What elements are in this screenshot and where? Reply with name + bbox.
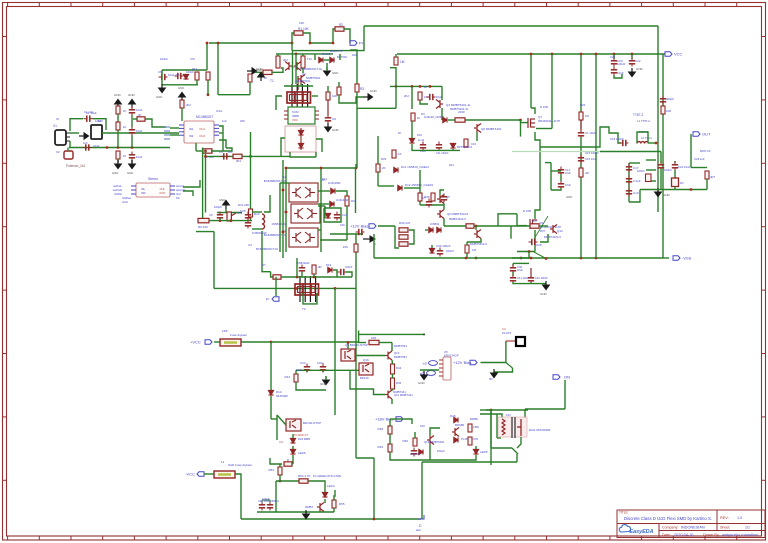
capacitor C20b 100nF bbox=[658, 162, 664, 171]
transformer T2 bbox=[295, 276, 319, 302]
svg-text:-VCC: -VCC bbox=[185, 472, 195, 477]
diode D4 bbox=[298, 143, 303, 148]
resistor R46 10R bbox=[369, 340, 379, 344]
capacitor C19 snubber bbox=[646, 174, 652, 182]
wire bbox=[429, 444, 431, 460]
capacitor C27b bbox=[426, 199, 432, 208]
diode D10 1N4148W bbox=[330, 201, 334, 206]
wire aux rail bbox=[359, 333, 425, 335]
svg-text:R 10R: R 10R bbox=[540, 105, 548, 109]
wire bbox=[209, 220, 252, 222]
svg-text:R39 447: R39 447 bbox=[399, 221, 411, 225]
wire bbox=[674, 161, 676, 163]
transistor Q13 bbox=[550, 225, 557, 234]
wire gate bbox=[517, 225, 527, 227]
wire bbox=[161, 70, 163, 85]
resistor R49 bbox=[388, 444, 392, 452]
wire bbox=[420, 455, 476, 460]
junction bbox=[411, 85, 414, 88]
net flag +12V Bias source bbox=[453, 360, 477, 365]
svg-text:C17: C17 bbox=[633, 166, 639, 170]
wire top rail bbox=[364, 25, 658, 27]
junction bbox=[285, 211, 288, 214]
wire bbox=[195, 143, 197, 151]
wire comparator rail bbox=[390, 85, 442, 87]
svg-text:F1B: F1B bbox=[222, 329, 228, 333]
svg-text:IRFI4019H-117P: IRFI4019H-117P bbox=[538, 119, 560, 123]
capacitor C15 10uF bbox=[578, 155, 584, 164]
wire bbox=[280, 182, 289, 184]
junction bbox=[690, 188, 693, 191]
svg-text:D18 MBR: D18 MBR bbox=[298, 437, 310, 441]
net flag +18V Bias bbox=[375, 417, 403, 422]
wire bbox=[279, 464, 281, 467]
wire bbox=[490, 410, 492, 448]
wire bbox=[411, 86, 413, 109]
wire bbox=[145, 119, 166, 127]
junction bbox=[465, 257, 468, 260]
wire bbox=[480, 409, 491, 411]
wire bbox=[391, 343, 393, 352]
wire stub dangling bbox=[510, 226, 512, 239]
junction bbox=[528, 250, 531, 253]
wire bbox=[286, 167, 356, 169]
net flag ON bbox=[553, 375, 570, 380]
svg-text:R33: R33 bbox=[381, 157, 387, 161]
junction bbox=[530, 257, 533, 260]
resistor R21 1K bbox=[411, 113, 415, 121]
wire bbox=[648, 142, 656, 144]
wire bbox=[330, 233, 363, 235]
wire bbox=[356, 92, 358, 168]
wire bbox=[390, 452, 420, 460]
wire bbox=[517, 251, 535, 253]
ground jack sleeve bbox=[79, 133, 89, 139]
svg-text:GNDin: GNDin bbox=[114, 192, 122, 196]
wire bbox=[466, 242, 468, 245]
resistor R30 4R7 bbox=[705, 171, 709, 179]
wire bbox=[534, 230, 536, 252]
wire vertical to feedback bbox=[205, 151, 207, 213]
svg-text:bR: bR bbox=[489, 377, 493, 381]
svg-text:C19: C19 bbox=[633, 191, 639, 195]
ground bbox=[247, 68, 257, 74]
capacitor C24 bbox=[334, 212, 340, 221]
junction bbox=[204, 155, 207, 158]
wire bbox=[300, 83, 302, 85]
svg-text:10uF: 10uF bbox=[296, 368, 302, 372]
IC4 pins bbox=[439, 360, 443, 376]
resistor R42 10K bbox=[354, 244, 358, 252]
wire bbox=[357, 107, 396, 109]
wire feedback resistor drop bbox=[250, 132, 252, 209]
resistor R5b bbox=[116, 122, 120, 130]
svg-text:OUR: OUR bbox=[159, 191, 165, 195]
wire bbox=[170, 127, 179, 129]
wire stub bbox=[646, 180, 656, 182]
junction bbox=[282, 189, 285, 192]
wire bbox=[333, 29, 335, 43]
wire bbox=[691, 167, 707, 169]
svg-text:DRV134OP: DRV134OP bbox=[444, 354, 459, 358]
wire bbox=[706, 179, 708, 190]
resistor R37 bbox=[530, 224, 539, 228]
resistor R52 bbox=[468, 437, 472, 445]
svg-text:2K: 2K bbox=[138, 113, 142, 117]
wire vertical bbox=[490, 410, 492, 465]
wire bbox=[346, 272, 352, 277]
svg-text:R3: R3 bbox=[360, 87, 364, 91]
svg-text:2020-04-10: 2020-04-10 bbox=[674, 533, 693, 537]
junction bbox=[282, 231, 285, 234]
wire diff rail bbox=[276, 53, 333, 55]
junction bbox=[291, 42, 294, 45]
wire bbox=[475, 446, 477, 449]
svg-text:GND: GND bbox=[332, 128, 340, 132]
capacitor C42 100nF bbox=[528, 275, 534, 284]
resistor R18 bbox=[337, 87, 341, 95]
svg-text:REV:: REV: bbox=[720, 516, 729, 520]
transistor Q14 bbox=[474, 230, 481, 239]
resistor R4 1M bbox=[394, 57, 398, 65]
junction bbox=[419, 85, 422, 88]
resistor R27 1R bbox=[579, 168, 583, 177]
wire bbox=[498, 214, 517, 226]
svg-text:BZT52C5V1: BZT52C5V1 bbox=[457, 145, 473, 149]
wire bbox=[302, 54, 304, 56]
wire bbox=[512, 272, 514, 276]
wire bbox=[524, 409, 526, 418]
wire bbox=[318, 190, 330, 192]
transistor Q6 MMBT4401 bbox=[474, 124, 481, 133]
svg-text:OU1: OU1 bbox=[199, 127, 205, 131]
ground up bbox=[179, 92, 186, 101]
capacitor C9 10pF bbox=[427, 94, 436, 100]
diode D22 bbox=[325, 213, 330, 218]
junction bbox=[429, 85, 432, 88]
ground output bbox=[655, 188, 662, 197]
relay K2 core bbox=[512, 417, 515, 438]
svg-text:1/1: 1/1 bbox=[745, 526, 750, 530]
svg-text:1K: 1K bbox=[398, 152, 402, 156]
wire bbox=[218, 94, 250, 96]
wire right vertical 2 bbox=[662, 54, 664, 258]
wire bbox=[217, 212, 242, 214]
wire bbox=[325, 376, 327, 380]
svg-text:10K: 10K bbox=[98, 119, 103, 123]
svg-text:R48: R48 bbox=[377, 427, 383, 431]
svg-text:FC-GREEN-STD-GTWE: FC-GREEN-STD-GTWE bbox=[313, 474, 342, 478]
resistor R12 bbox=[195, 72, 199, 80]
svg-text:C25: C25 bbox=[240, 209, 246, 213]
wire bbox=[419, 170, 421, 205]
wire bbox=[356, 457, 374, 459]
wire long mid vertical bbox=[355, 285, 357, 458]
wire right stack vertical bbox=[320, 168, 322, 252]
wire bbox=[326, 63, 328, 71]
junction bbox=[475, 257, 478, 260]
wire to P- flag bbox=[275, 277, 277, 296]
diode D15 bbox=[419, 449, 423, 454]
capacitor C2 1uF bbox=[83, 144, 92, 150]
svg-text:10uF: 10uF bbox=[565, 183, 571, 187]
capacitor C27 bbox=[441, 194, 447, 203]
wire bbox=[391, 399, 393, 404]
junction bbox=[475, 225, 478, 228]
svg-text:altru: altru bbox=[416, 528, 422, 532]
junction bbox=[282, 189, 285, 192]
wire long vertical bbox=[270, 342, 272, 390]
connector X1 pins bbox=[66, 133, 70, 141]
wire bbox=[292, 26, 364, 51]
wire long drop 2 bbox=[595, 55, 597, 258]
wire bbox=[347, 343, 349, 350]
svg-text:100pF: 100pF bbox=[214, 205, 222, 209]
svg-text:SAD Fuse diykasi: SAD Fuse diykasi bbox=[228, 463, 252, 467]
svg-text:C42 100nF: C42 100nF bbox=[535, 276, 548, 280]
wire bbox=[320, 239, 347, 241]
wire bbox=[441, 108, 443, 120]
wire stub bbox=[277, 415, 286, 425]
wire bbox=[249, 82, 251, 95]
resistor R9 bbox=[198, 218, 209, 222]
IC3 pins bbox=[284, 111, 319, 119]
wire left stack vertical bbox=[282, 160, 284, 258]
svg-text:Drawn By:: Drawn By: bbox=[703, 533, 720, 537]
wire bbox=[481, 362, 506, 364]
svg-text:D11: D11 bbox=[449, 163, 454, 167]
IC2 right pins bbox=[170, 186, 175, 194]
svg-text:LED6: LED6 bbox=[298, 451, 306, 455]
svg-text:1.0: 1.0 bbox=[737, 516, 742, 520]
wire bbox=[438, 149, 440, 151]
net flag +VCC bbox=[190, 340, 212, 345]
svg-text:Q5: Q5 bbox=[446, 195, 450, 199]
svg-text:L1 TT87-2: L1 TT87-2 bbox=[637, 119, 650, 123]
wire vertical from P+ rail bbox=[217, 43, 219, 95]
capacitor C8 bbox=[325, 115, 331, 124]
wire bbox=[70, 132, 79, 134]
wire bbox=[378, 225, 395, 227]
wire switch node vertical bbox=[535, 147, 540, 219]
diode D8 LL4148 bbox=[409, 138, 414, 143]
wire bbox=[355, 164, 357, 168]
wire bbox=[613, 54, 615, 59]
wire bus into opamp bbox=[164, 127, 170, 139]
ground bbox=[325, 123, 332, 132]
wire bbox=[441, 86, 443, 100]
svg-text:C18 100nF: C18 100nF bbox=[610, 137, 624, 141]
wire bbox=[250, 217, 252, 221]
svg-text:GND: GND bbox=[663, 193, 671, 197]
wire bbox=[425, 229, 428, 231]
junction bbox=[580, 257, 583, 260]
svg-text:C5: C5 bbox=[209, 213, 213, 217]
junction bbox=[551, 53, 554, 56]
svg-text:4R7: 4R7 bbox=[710, 175, 716, 179]
wire bbox=[313, 274, 315, 277]
wire bbox=[131, 160, 133, 163]
resistor R38 1M bbox=[465, 245, 469, 253]
svg-text:1N4148_CMKIT: 1N4148_CMKIT bbox=[424, 115, 444, 119]
ground bias bbox=[159, 84, 166, 93]
wire bbox=[496, 414, 498, 438]
wire drop from VCC bbox=[530, 55, 532, 108]
wire bbox=[395, 54, 397, 57]
connector X1 audio jack bbox=[55, 130, 66, 145]
wire bbox=[378, 185, 394, 187]
wire bbox=[373, 234, 375, 258]
junction bbox=[249, 155, 252, 158]
svg-text:P4 ATX: P4 ATX bbox=[502, 331, 511, 335]
wire bbox=[412, 144, 460, 150]
svg-text:12V: 12V bbox=[506, 413, 511, 417]
relay K2 contact bbox=[517, 419, 521, 436]
wire bbox=[390, 67, 396, 69]
svg-text:RV1 20K: RV1 20K bbox=[238, 203, 249, 207]
svg-text:400pF: 400pF bbox=[666, 97, 674, 101]
svg-text:FC-RED-ST: FC-RED-ST bbox=[294, 433, 308, 437]
resistor R19 bbox=[418, 92, 422, 100]
wire bbox=[476, 132, 478, 141]
svg-text:GND: GND bbox=[219, 198, 225, 202]
resistor R22b bbox=[464, 139, 468, 147]
wire bbox=[303, 33, 333, 43]
svg-text:100nF: 100nF bbox=[345, 265, 353, 269]
svg-text:MMBT4401/4: MMBT4401/4 bbox=[449, 217, 466, 221]
wire bbox=[443, 204, 445, 210]
resistor R57 bbox=[312, 265, 316, 274]
wire inductor loop bbox=[637, 132, 648, 143]
wire bbox=[344, 29, 350, 43]
svg-text:BD680: BD680 bbox=[470, 417, 478, 421]
svg-text:T12: T12 bbox=[307, 57, 312, 61]
svg-text:1N5819HW: 1N5819HW bbox=[296, 261, 310, 265]
junction bbox=[332, 42, 335, 45]
svg-text:1N4148W: 1N4148W bbox=[336, 198, 349, 202]
capacitor C17 2.2uF bbox=[626, 164, 632, 173]
svg-text:GND: GND bbox=[370, 89, 378, 93]
wire bbox=[390, 418, 405, 420]
svg-text:GND: GND bbox=[127, 171, 133, 175]
svg-text:R45: R45 bbox=[396, 381, 402, 385]
svg-text:100nF: 100nF bbox=[617, 62, 626, 66]
svg-text:FC-: FC- bbox=[279, 440, 284, 444]
capacitor C28 bbox=[529, 239, 538, 245]
wire upper T2 rail bbox=[281, 276, 352, 278]
wire bbox=[204, 473, 214, 475]
svg-text:BC846BDW1T1G: BC846BDW1T1G bbox=[264, 233, 286, 237]
wire bbox=[422, 461, 517, 463]
svg-text:10K: 10K bbox=[343, 245, 348, 249]
ground on rail b bbox=[303, 510, 310, 519]
wire stub bbox=[646, 159, 656, 161]
wire bbox=[690, 134, 692, 136]
ground bbox=[115, 160, 122, 169]
wire output return bbox=[600, 151, 661, 153]
wire bbox=[358, 342, 366, 344]
wire bbox=[525, 408, 565, 410]
svg-text:100uF: 100uF bbox=[437, 449, 445, 453]
capacitor C20 100nF bbox=[611, 58, 617, 67]
svg-text:10K: 10K bbox=[340, 223, 345, 227]
wire bbox=[580, 55, 582, 112]
wire highlighted net bbox=[512, 151, 600, 153]
diode Z1 BZT52C bbox=[450, 143, 455, 148]
wire component loop bbox=[324, 208, 341, 222]
svg-text:22uF: 22uF bbox=[93, 144, 100, 148]
wire bbox=[334, 490, 335, 500]
wire bbox=[324, 499, 326, 503]
wire bbox=[505, 341, 507, 363]
svg-text:MUR460: MUR460 bbox=[276, 394, 288, 398]
wire bbox=[292, 446, 294, 449]
wire from P+ rail bbox=[291, 43, 293, 51]
svg-text:Vref: Vref bbox=[176, 192, 181, 196]
resistor R44 bbox=[391, 364, 395, 374]
relay K2 body bbox=[498, 417, 527, 437]
resistor R37b bbox=[466, 224, 474, 228]
diode LED5 bbox=[473, 449, 478, 454]
wire bbox=[315, 152, 317, 157]
svg-text:C23 1uF: C23 1uF bbox=[694, 157, 705, 161]
wire from stack bbox=[296, 258, 298, 277]
wire lower loop bbox=[350, 370, 385, 394]
wire bbox=[614, 74, 622, 78]
capacitor C11 100nF bbox=[436, 142, 442, 151]
junction bbox=[313, 276, 316, 279]
svg-text:OUL: OUL bbox=[160, 187, 166, 191]
svg-text:R37: R37 bbox=[532, 219, 538, 223]
junction bbox=[285, 167, 288, 170]
junction bbox=[279, 480, 282, 483]
capacitor C13 10uF bbox=[558, 181, 564, 190]
wire bbox=[536, 128, 552, 130]
capacitor C18b 2.2uF bbox=[626, 176, 632, 185]
wire bbox=[517, 437, 521, 448]
wire bbox=[241, 341, 271, 343]
IC1 left pins bbox=[179, 125, 184, 135]
junction bbox=[334, 287, 337, 290]
wire bbox=[131, 135, 133, 148]
wire bbox=[183, 180, 200, 187]
capacitor C21 10uF bbox=[611, 67, 617, 76]
svg-text:TITLE:: TITLE: bbox=[619, 511, 629, 515]
svg-text:D12 1N5819_OAE01: D12 1N5819_OAE01 bbox=[405, 183, 434, 187]
svg-text:100uF: 100uF bbox=[262, 497, 270, 501]
wire bbox=[674, 187, 676, 190]
junction bbox=[282, 231, 285, 234]
wire bbox=[486, 409, 528, 411]
svg-text:MMBT4401/4: MMBT4401/4 bbox=[544, 235, 561, 239]
wire bbox=[181, 108, 183, 121]
svg-text:10uF: 10uF bbox=[565, 171, 571, 175]
svg-text:1K: 1K bbox=[398, 131, 402, 135]
junction bbox=[230, 219, 233, 222]
wire bbox=[395, 67, 397, 108]
wire bbox=[276, 415, 278, 440]
svg-text:+12V Bias: +12V Bias bbox=[350, 224, 368, 229]
wire bbox=[480, 413, 497, 415]
diode D2b bbox=[183, 74, 188, 79]
op-amp IC1 MC4580 bbox=[184, 121, 214, 143]
svg-text:MKP-X2: MKP-X2 bbox=[700, 149, 711, 153]
connector K1 block bbox=[91, 125, 102, 139]
wire VCC drop right bbox=[551, 54, 553, 129]
wire bbox=[629, 190, 640, 203]
junction bbox=[355, 167, 358, 170]
wire bbox=[333, 508, 335, 512]
